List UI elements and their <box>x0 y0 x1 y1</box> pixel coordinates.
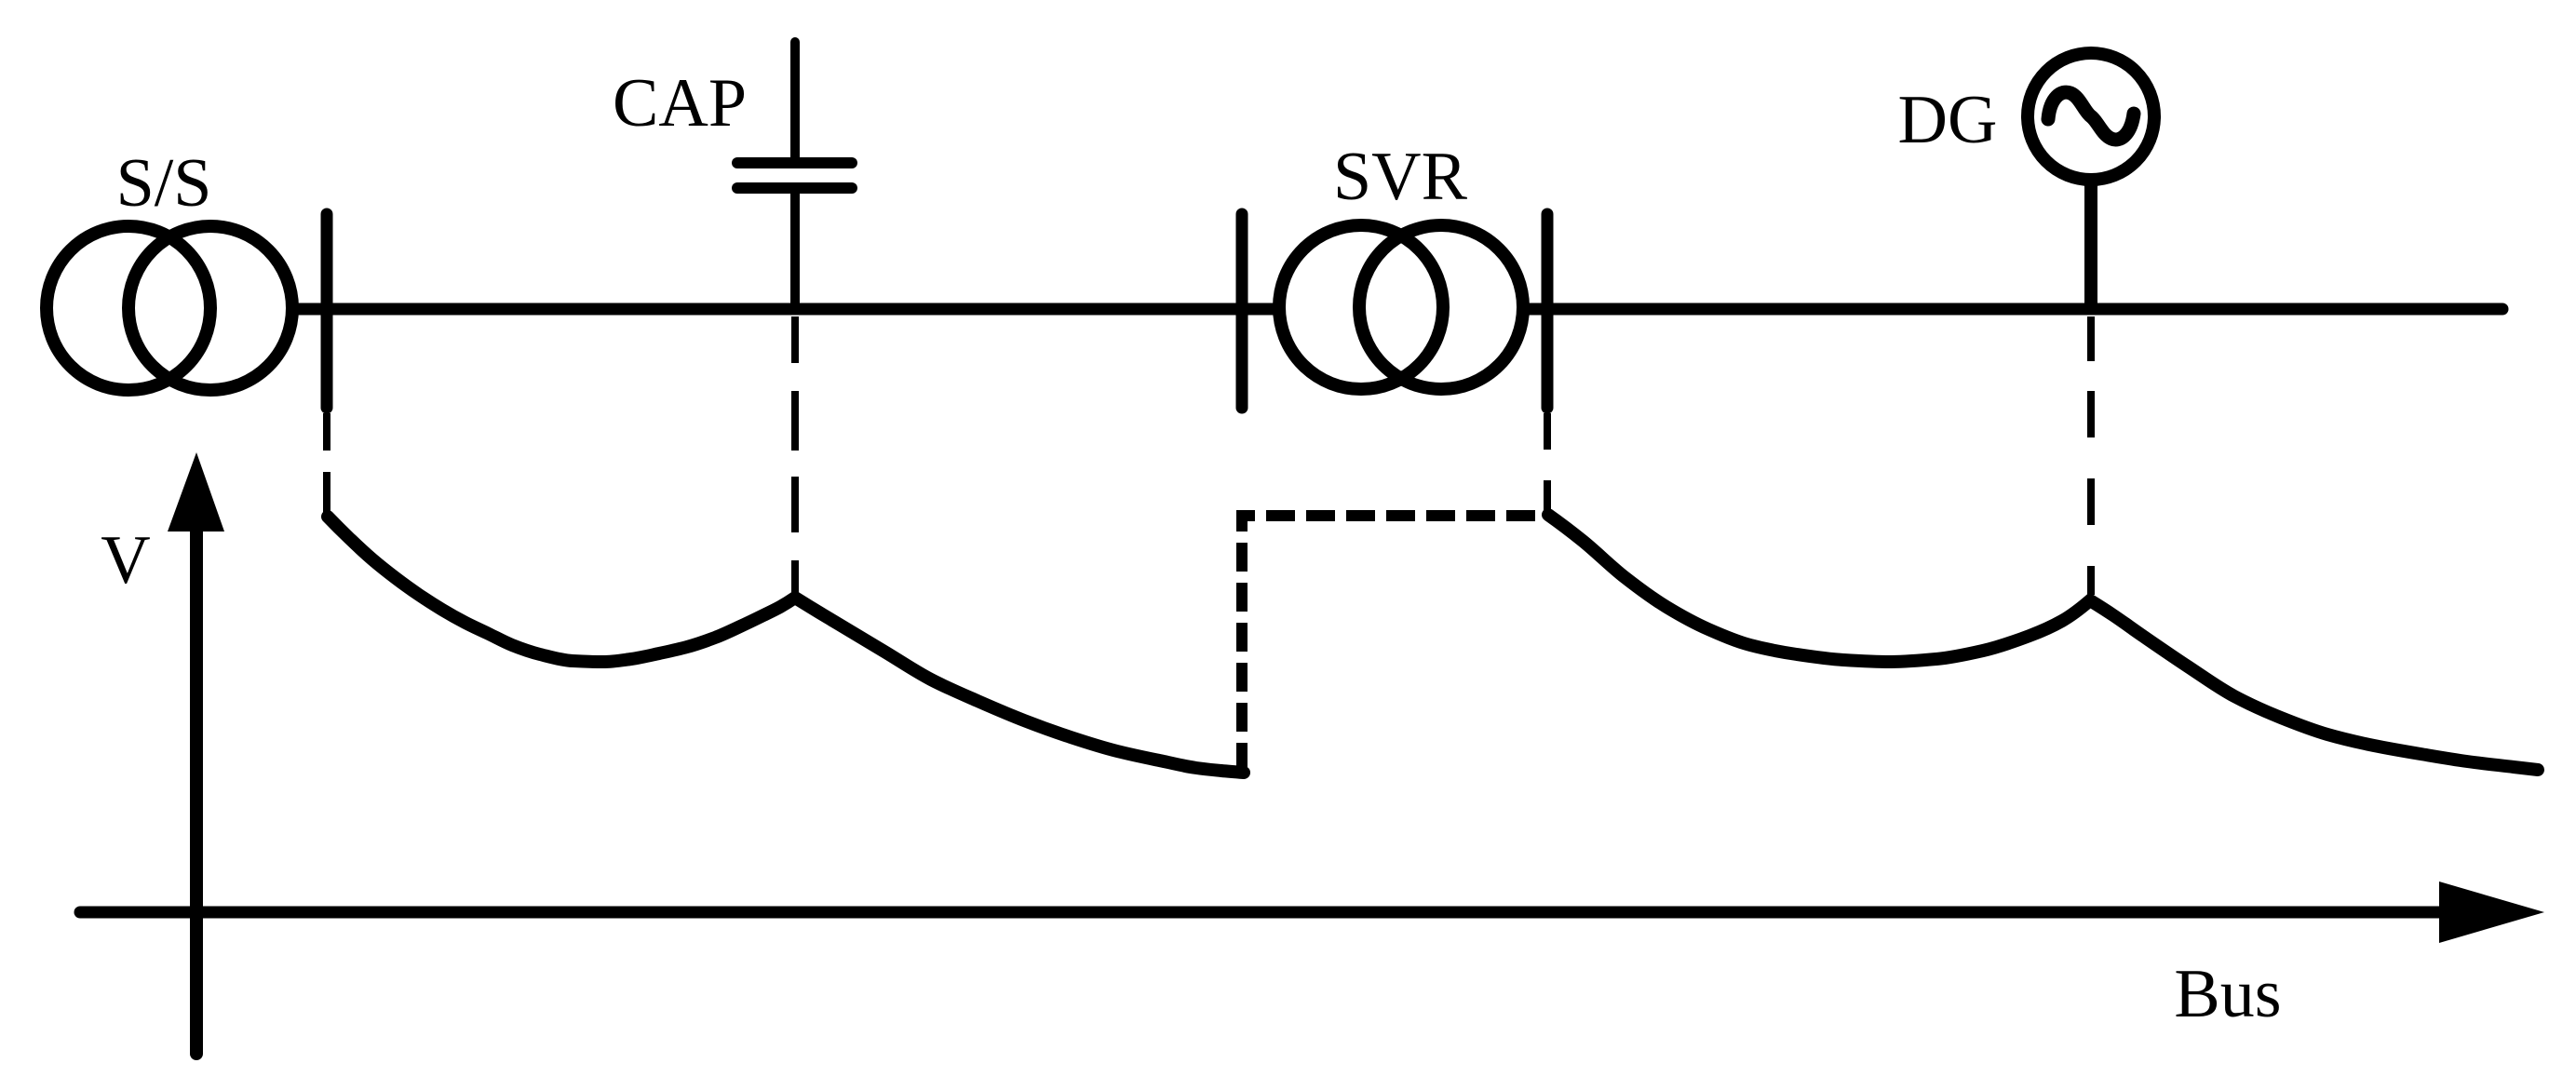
dashed dropline at CAP <box>791 316 799 595</box>
Bus axis (horizontal) <box>80 881 2544 943</box>
svg-text:SVR: SVR <box>1333 139 1468 215</box>
V axis (vertical) <box>168 452 224 1054</box>
dashed SVR voltage-boost step <box>1242 516 1547 772</box>
transformer SVR <box>1279 225 1523 389</box>
svg-text:S/S: S/S <box>116 145 212 222</box>
dashed dropline at SVR output <box>1544 413 1551 514</box>
svg-text:Bus: Bus <box>2174 956 2281 1032</box>
node tick 1 (feeder head) <box>321 214 333 408</box>
wire feeder bus line <box>289 303 2502 316</box>
node tick 2 (SVR input) <box>1236 214 1248 408</box>
svg-text:DG: DG <box>1898 82 1998 158</box>
dashed dropline at feeder head <box>323 413 330 518</box>
capacitor CAP <box>737 42 852 315</box>
svg-text:CAP: CAP <box>613 65 747 141</box>
transformer S/S <box>47 226 292 390</box>
dashed dropline at DG <box>2087 316 2095 595</box>
voltage profile curve 1 (S/S to SVR) <box>328 517 1244 773</box>
generator DG <box>2028 53 2154 315</box>
node tick 3 (SVR output) <box>1542 214 1554 408</box>
voltage profile curve 2 (SVR to end) <box>1548 515 2538 770</box>
svg-text:V: V <box>101 522 150 599</box>
